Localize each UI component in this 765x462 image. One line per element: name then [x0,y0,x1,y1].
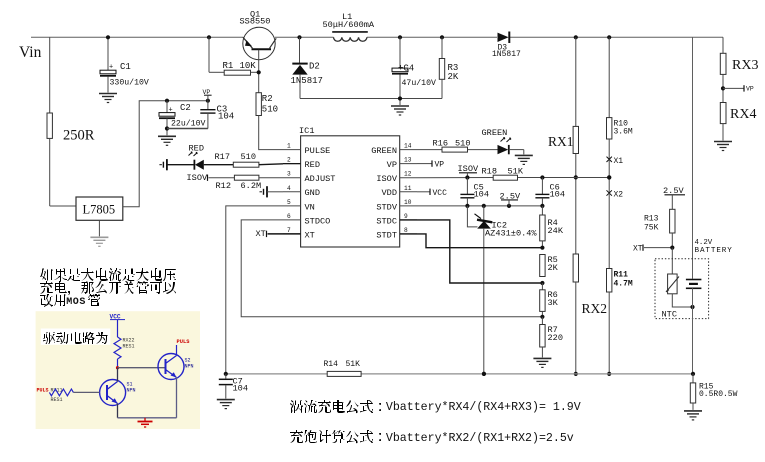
svg-text:VP: VP [746,86,754,93]
svg-text:+: + [169,107,173,115]
note Chinese annotation [40,268,176,308]
wire STDC pin9 [400,220,545,285]
svg-text:MOS: MOS [66,297,86,308]
svg-text:GREEN: GREEN [371,146,397,156]
svg-text:VDD: VDD [382,188,397,198]
svg-text:75K: 75K [644,224,659,233]
svg-text:R11: R11 [614,271,629,280]
capacitor C3 [167,101,234,129]
wire IC2 anode [482,229,486,376]
wire NTC to battery negative [672,294,694,309]
wire battery positive [692,37,694,278]
svg-text:10: 10 [404,199,412,206]
svg-text:4: 4 [287,185,291,192]
svg-text:330u/10V: 330u/10V [110,77,149,87]
capacitor C1 [100,35,149,92]
net tag ISOV pin3 [187,173,235,183]
resistor R18 51K [482,167,524,181]
net tag VP pin13 [417,160,444,169]
svg-text:220: 220 [548,333,563,343]
svg-text:PULS: PULS [177,339,191,345]
svg-text:1N5817: 1N5817 [492,50,521,59]
wire X2 to R11 [608,193,610,269]
wire R10 branch [607,35,611,117]
svg-text:STDC: STDC [376,216,397,226]
wire R13 to NTC [671,248,673,274]
battery 4.2V [686,239,733,307]
resistor R11 4.7M [607,269,633,293]
diode D2 1N5817 [291,35,323,98]
svg-text:104: 104 [218,112,234,122]
svg-text:R18: R18 [482,167,497,177]
svg-text:VP: VP [387,160,397,170]
wire RX22 to node [116,359,119,369]
wire battery negative to rail [691,307,695,376]
svg-text:2: 2 [287,157,291,164]
svg-text:104: 104 [233,384,248,394]
capacitor C5 104 [460,178,489,206]
ground RX4 [714,142,732,151]
capacitor C4 47u/10V [392,35,436,105]
svg-text:VCC: VCC [433,189,448,198]
capacitor C6 104 [535,178,565,206]
wire Vin top rail [31,36,723,38]
svg-text:R1: R1 [223,61,234,71]
svg-text:R17: R17 [215,152,230,162]
note 驱动电路为 [41,329,111,345]
svg-text:IC1: IC1 [299,126,314,136]
svg-text:Vin: Vin [19,44,42,61]
svg-text:PULS: PULS [37,387,49,393]
svg-text:24K: 24K [548,226,564,236]
svg-text:4.7M: 4.7M [614,280,633,289]
svg-text:+C4: +C4 [398,64,414,74]
svg-text:7: 7 [287,227,291,234]
svg-text:RES1: RES1 [51,397,63,403]
resistor R4 24K [540,206,564,248]
capacitor C7 104 [219,372,248,399]
svg-text:RX1: RX1 [548,134,574,149]
svg-text:510: 510 [262,105,278,115]
svg-text:5: 5 [287,199,291,206]
svg-text:R13: R13 [644,215,659,224]
resistor R12 6.2M [216,175,284,191]
resistor R15 0.5R [690,374,737,410]
svg-text:510: 510 [455,138,470,148]
wire driver emitters [118,417,177,419]
net tag 2.5V at R13 [663,186,685,209]
resistor R5 2K [540,255,559,277]
svg-text:14: 14 [404,143,412,150]
resistor 250R [47,37,95,206]
svg-text:6: 6 [287,213,291,220]
resistor R14 51K [324,360,362,376]
svg-text:NPN: NPN [185,364,194,370]
svg-text:BATTERY: BATTERY [695,247,733,255]
svg-text:510: 510 [241,152,256,162]
svg-text:47u/10V: 47u/10V [402,78,436,88]
svg-text:51K: 51K [508,167,524,177]
resistor R13 75K [644,209,675,247]
resistor RX3 [720,53,758,102]
wire R1 branch [207,35,224,72]
ground C2 [158,136,176,145]
node Vin [19,44,42,61]
transistor Q1 SS8550 [240,10,277,60]
jumper X2 [607,190,624,199]
svg-text:Vbattery*RX2/(RX1+RX2)=2.5v: Vbattery*RX2/(RX1+RX2)=2.5v [386,432,574,445]
svg-text:Vbattery*RX4/(RX4+RX3)= 1.9V: Vbattery*RX4/(RX4+RX3)= 1.9V [386,401,581,414]
svg-text:3K: 3K [548,298,559,308]
note charge formula 2 [290,430,574,445]
svg-text:RX3: RX3 [732,58,758,73]
wire STDT pin8 [400,234,545,250]
svg-text:ADJUST: ADJUST [305,174,336,184]
wire R10 to X1 [608,139,610,159]
wire X1 to X2 [607,159,611,193]
svg-text:250R: 250R [63,128,95,144]
resistor R16 510 [417,138,498,152]
svg-text:2K: 2K [448,72,459,82]
svg-text:VN: VN [305,202,315,212]
op-amp U1 IC1 box [283,126,417,247]
net tag VCC pin11 [417,189,447,199]
svg-text:3: 3 [287,171,291,178]
svg-text:ISOV: ISOV [187,173,208,183]
net tag XT at R13 [633,244,674,253]
net tag PULS at S2 [177,339,191,356]
svg-text:X2: X2 [614,191,624,200]
ground GREEN LED [515,155,533,164]
wire RX1 to RX2 [574,154,578,255]
svg-text:50μH/600mA: 50μH/600mA [323,20,375,30]
battery dashed box [655,259,709,319]
svg-text:13: 13 [404,157,412,164]
svg-text:SS8550: SS8550 [240,17,271,27]
resistor R17 510 [215,152,301,167]
svg-text:1N5817: 1N5817 [291,76,323,86]
resistor R10 3.6M [607,118,633,139]
inductor L1 50uH/600mA [323,12,375,41]
resistor R3 2K [439,35,459,98]
svg-text:XT: XT [633,245,643,254]
svg-text:XT: XT [305,230,315,240]
svg-text:10K: 10K [240,61,257,71]
svg-text:VP: VP [435,161,445,170]
svg-text:XT: XT [256,229,266,239]
svg-text:2K: 2K [548,263,559,273]
svg-text:3.6M: 3.6M [614,128,633,137]
wire Q1 base to R2 [257,50,261,93]
resistor RX2 [573,254,607,316]
svg-text:R2: R2 [262,94,273,104]
transistor S2 NPN [158,354,194,380]
net tag 2.5V [500,191,521,206]
net tag ISOV [458,164,479,180]
svg-text:12: 12 [404,171,412,178]
svg-text:6.2M: 6.2M [241,181,262,191]
svg-text:C1: C1 [120,62,131,72]
svg-text:STDCO: STDCO [305,216,331,226]
svg-text:STDV: STDV [376,202,397,212]
ground C7 [217,400,235,409]
resistor R6 3K [540,283,559,319]
svg-text:ISOV: ISOV [376,174,397,184]
svg-text:104: 104 [474,190,489,200]
ground R15 [684,411,702,420]
svg-text:11: 11 [404,185,412,192]
wire node to S2 base [118,367,166,369]
wire L7805 output [123,101,208,207]
svg-text:D2: D2 [309,62,320,72]
wire RX1 branch [574,35,578,126]
resistor RX11 RES1 [49,389,99,396]
svg-text:22u/10V: 22u/10V [171,118,205,128]
ground C4 [391,106,409,115]
wire L7805 input [50,205,76,207]
svg-text:4.2V: 4.2V [695,239,713,247]
wire S2 emitter [176,378,178,418]
svg-text:9: 9 [404,213,408,220]
svg-text:8: 8 [404,227,408,234]
wire D2/C4/R3 bottom [300,98,442,100]
ground L7805 [90,220,108,246]
jumper X1 [607,157,624,166]
svg-text:+: + [109,64,113,72]
wire RX2 to ground rail [574,282,578,376]
svg-text:L7805: L7805 [83,203,116,217]
wire STDCO pin6 [241,220,542,317]
LED GREEN [482,128,524,154]
wire S1 emitter [117,404,119,418]
wire STDV net [417,204,545,208]
wire R11 to ground rail [607,292,611,376]
svg-text:RX4: RX4 [730,107,756,122]
LED RED [189,144,234,170]
svg-text:AZ431±0.4%: AZ431±0.4% [485,229,537,239]
port RED LED return [159,159,194,170]
ground driver red [138,418,153,427]
svg-text:RX2: RX2 [582,301,608,316]
svg-text:GND: GND [305,188,320,198]
svg-text:C2: C2 [180,103,191,113]
resistor RX4 [720,103,756,141]
svg-text:GREEN: GREEN [482,128,508,138]
port GND pin4 [260,186,284,197]
svg-text:PULSE: PULSE [305,146,331,156]
svg-text:STDT: STDT [376,230,397,240]
note charge formula 1 [290,400,581,414]
driver subcircuit background [36,311,200,429]
resistor R7 220 [540,317,563,358]
svg-text:51K: 51K [346,360,361,369]
wire ISOV net [417,175,611,179]
svg-text:NPN: NPN [127,388,136,394]
ground R7 [533,358,551,367]
resistor R2 510 [256,93,278,116]
resistor RX1 [548,126,579,153]
svg-text:X1: X1 [614,157,624,166]
net tag XT pin7 [256,229,301,239]
svg-text:R12: R12 [216,181,231,191]
thermistor NTC [662,274,680,320]
transistor S1 NPN [100,380,136,406]
svg-text:104: 104 [550,190,565,200]
ground C1 [99,94,117,103]
node VP at C3 [203,89,212,103]
wire S1 collector [117,368,119,382]
svg-text:RES1: RES1 [123,344,135,350]
wire VN pin5 [226,206,283,374]
wire R2 to PULSE pin [259,116,283,150]
resistor RX22 RES1 [114,337,135,359]
regulator L7805 [76,197,123,220]
resistor R1 10K [223,61,259,75]
port PULS input [37,387,63,403]
svg-text:RED: RED [305,160,320,170]
svg-text:1: 1 [287,143,291,150]
power VCC driver [110,314,126,338]
svg-text:0.5R0.5W: 0.5R0.5W [699,390,738,399]
svg-text:R14: R14 [324,360,339,369]
capacitor C2 [159,99,205,136]
node VP divider tap [721,85,754,92]
wire ground rail [226,372,693,376]
svg-text:R16: R16 [433,138,448,148]
diode D3 1N5817 [492,32,521,60]
shunt reference IC2 AZ431 [467,206,537,239]
svg-text:NTC: NTC [662,310,677,320]
wire top rail to RX3 [722,37,724,53]
